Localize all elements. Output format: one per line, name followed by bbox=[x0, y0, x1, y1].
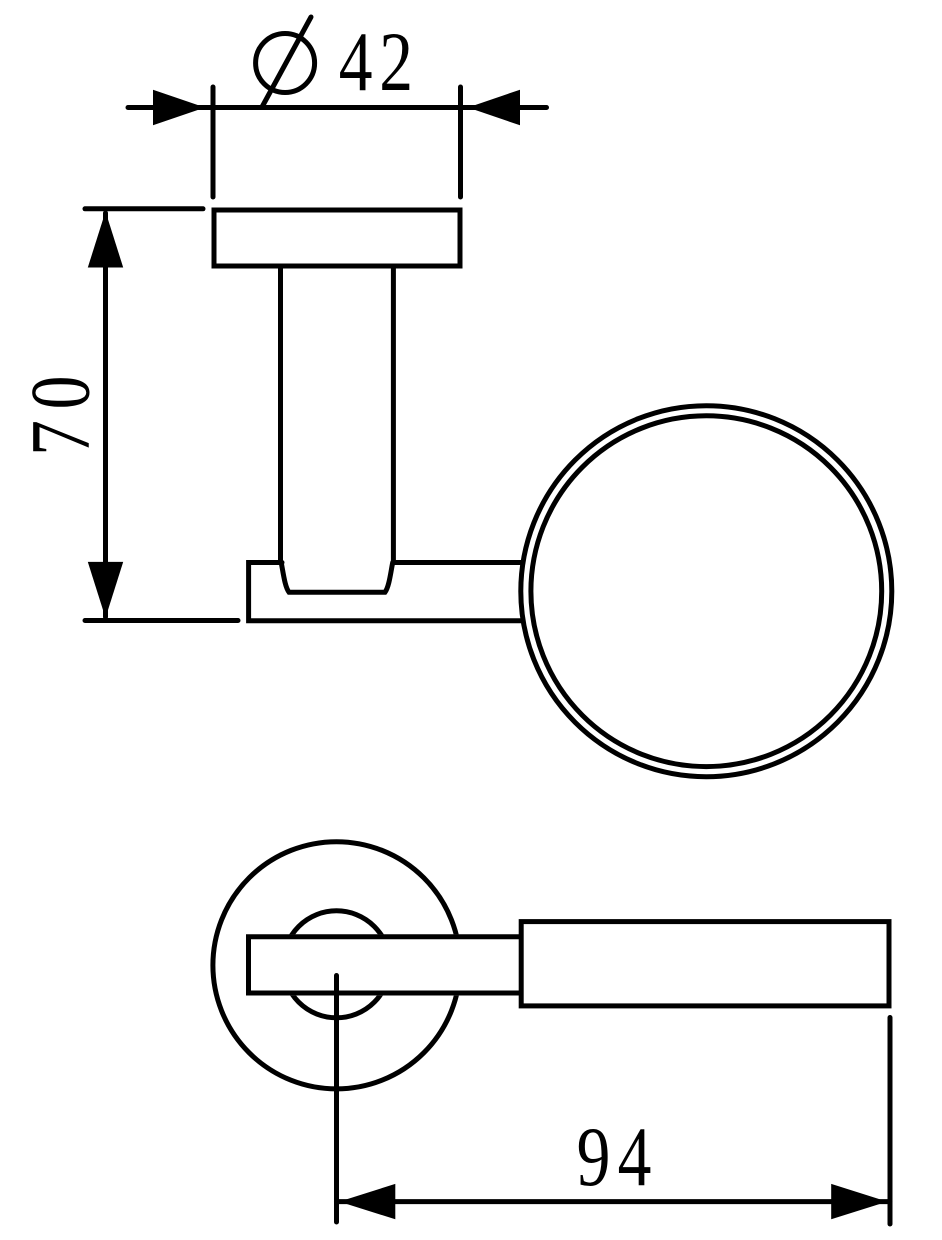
dim 70 extension line bottom bbox=[85, 618, 238, 623]
dim Ø42 extension line right bbox=[458, 87, 463, 197]
plan view ring rectangle bbox=[521, 922, 889, 1006]
diameter symbol circle bbox=[256, 34, 315, 93]
svg-text:2: 2 bbox=[379, 15, 413, 109]
dim 94 arrow right bbox=[831, 1184, 887, 1219]
dim Ø42 arrow right bbox=[468, 90, 520, 126]
svg-text:0: 0 bbox=[14, 376, 108, 410]
ring inner circle (side view) bbox=[531, 416, 882, 767]
dim 70 arrow up bbox=[88, 212, 123, 268]
plan view post hole inner circle bbox=[283, 911, 390, 1018]
dim 94 dimension line bbox=[337, 1199, 891, 1204]
dim 70 extension line top bbox=[85, 206, 203, 211]
svg-text:4: 4 bbox=[618, 1110, 652, 1204]
diameter symbol slash bbox=[262, 17, 311, 107]
dim 70 dimension line bbox=[103, 213, 108, 617]
svg-text:9: 9 bbox=[577, 1110, 611, 1204]
post left wire bbox=[278, 266, 283, 563]
dim 94 arrow left bbox=[339, 1184, 395, 1219]
dim Ø42 extension line left bbox=[211, 87, 216, 197]
plan view ring outer circle bbox=[213, 842, 460, 1089]
dim 94 extension line right bbox=[888, 1018, 893, 1225]
svg-text:4: 4 bbox=[339, 15, 373, 109]
wall plate (side view top rectangle) bbox=[214, 210, 460, 266]
svg-text:7: 7 bbox=[13, 420, 107, 456]
dim Ø42 arrow left bbox=[153, 90, 205, 126]
ring outer circle (side view) bbox=[521, 406, 892, 777]
dim 70 arrow down bbox=[88, 562, 123, 618]
plan view arm bar outline bbox=[249, 937, 522, 993]
dim 94 center line left bbox=[334, 976, 339, 1223]
bracket arm outline (side view) bbox=[249, 563, 523, 621]
post socket notch with fillets bbox=[281, 563, 393, 593]
dim Ø42 dimension line bbox=[128, 105, 547, 110]
post right wire bbox=[391, 266, 396, 563]
plan view arm bar white cover bbox=[246, 934, 521, 995]
